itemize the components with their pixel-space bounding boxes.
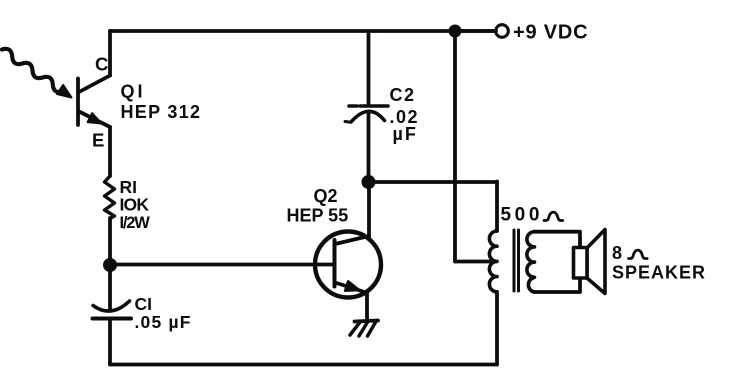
svg-text:µF: µF [393, 124, 418, 144]
node junction dot (+9V tap) [449, 25, 462, 38]
wire transformer centre tap [455, 260, 490, 264]
svg-text:500: 500 [501, 205, 544, 226]
wire R1 to junction node [108, 218, 112, 265]
wire C2 top lead [367, 31, 371, 105]
svg-text:C2: C2 [390, 85, 416, 105]
resistor R1 [105, 176, 115, 219]
wire +9V tap vertical [453, 31, 457, 262]
svg-text:QI: QI [121, 82, 146, 102]
wire secondary loop to speaker [535, 232, 581, 292]
label ohm symbol (8) [629, 250, 648, 258]
node junction dot (Q2 collector / C2 / transformer) [362, 175, 376, 189]
wire Q2 collector riser to top horizontal [367, 182, 371, 238]
svg-text:IOK: IOK [120, 195, 150, 215]
svg-text:HEP 312: HEP 312 [121, 102, 202, 122]
svg-text:+9 VDC: +9 VDC [513, 22, 588, 44]
svg-text:CI: CI [135, 294, 153, 314]
svg-text:SPEAKER: SPEAKER [612, 263, 706, 283]
transformer core [514, 230, 519, 291]
light arrow head [57, 85, 72, 98]
wire Q1 emitter lead down to R1 [108, 127, 112, 176]
ground [350, 321, 378, 337]
wire bottom rail [110, 363, 497, 367]
capacitor C1 [93, 301, 132, 319]
transistor Q2 [315, 232, 381, 298]
label ohm symbol (500) [544, 212, 563, 220]
wire terminal stub [455, 29, 496, 33]
wire Q2 emitter to ground [365, 291, 369, 321]
transformer T1 secondary winding [527, 232, 535, 293]
capacitor C2 [345, 106, 388, 122]
light arrow wavy line [2, 49, 63, 92]
wire base rail from node to Q2 [110, 263, 332, 267]
wire C2 bottom lead [367, 113, 371, 182]
speaker [574, 230, 606, 294]
svg-text:HEP 55: HEP 55 [287, 206, 349, 226]
transformer T1 primary winding [489, 231, 497, 292]
+9 VDC terminal circle [496, 25, 509, 38]
svg-text:C: C [95, 54, 108, 75]
svg-text:.05 µF: .05 µF [135, 312, 192, 332]
svg-text:8: 8 [612, 243, 622, 263]
wire top rail (+9V bus) [110, 29, 494, 33]
svg-text:I/2W: I/2W [120, 214, 151, 232]
wire C1 top lead [108, 265, 112, 309]
wire C1 bottom lead [108, 319, 112, 365]
wire transformer primary top lead [495, 182, 499, 232]
node junction dot (R1/C1/base) [103, 258, 117, 272]
wire right vertical (primary bottom to bottom rail) [495, 292, 499, 365]
svg-text:E: E [92, 130, 104, 151]
phototransistor Q1 [78, 76, 110, 128]
wire Q1 collector riser [108, 31, 112, 76]
wire collector net horizontal to transformer [369, 180, 497, 184]
svg-text:Q2: Q2 [314, 186, 338, 206]
